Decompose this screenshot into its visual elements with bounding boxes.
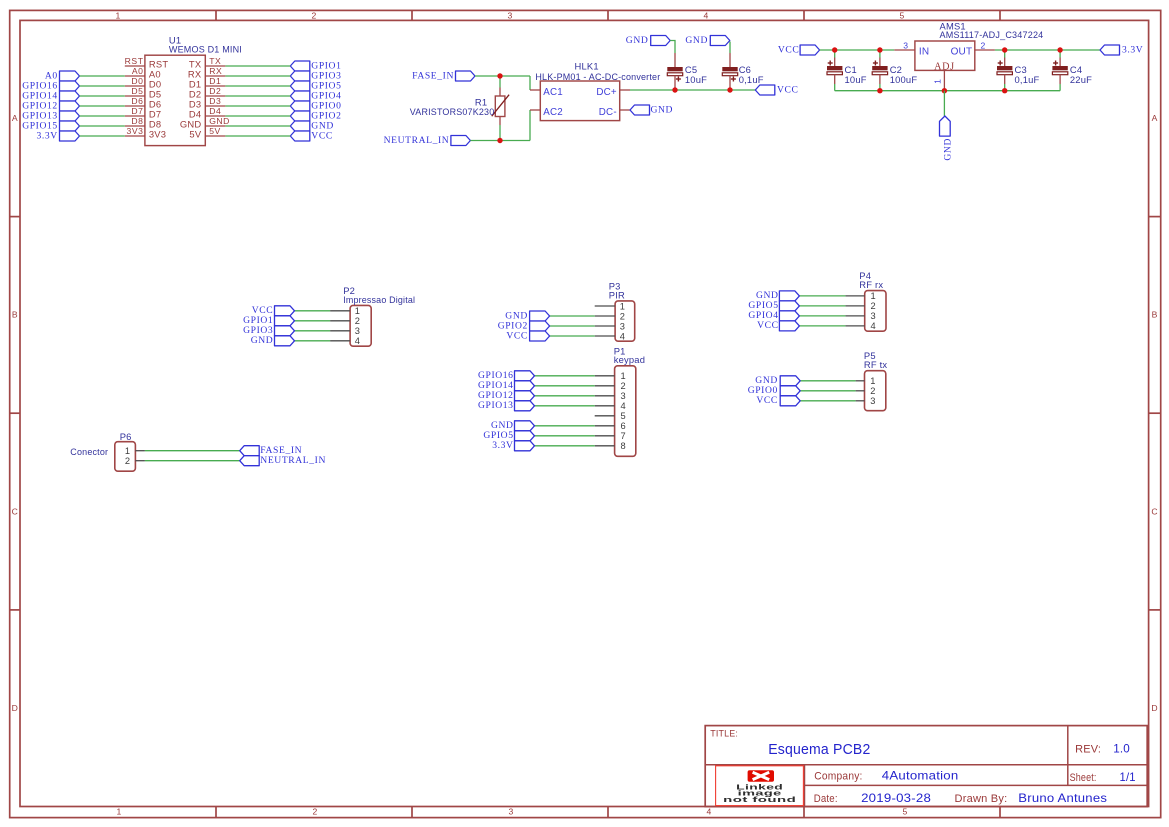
wire U1 to GPIO2 (225, 115, 290, 117)
svg-text:D1: D1 (209, 76, 221, 86)
P1 pin 2 (595, 385, 615, 387)
capacitor C3 wire bottom (1004, 84, 1006, 91)
wire U1 to GND (225, 125, 290, 127)
P4 pin 2 (845, 305, 864, 307)
net flag column right of U1 (290, 61, 310, 71)
svg-text:10uF: 10uF (685, 74, 707, 85)
svg-text:1: 1 (116, 11, 121, 21)
U1 left pin D0 (125, 85, 145, 87)
U1 right pin D4 (205, 115, 225, 117)
title block vertical divider rev column (1067, 726, 1069, 786)
net flag NEUTRAL_IN at P6 (240, 456, 260, 466)
svg-text:2: 2 (125, 456, 130, 466)
svg-text:D2: D2 (209, 86, 221, 96)
svg-text:DC+: DC+ (596, 87, 617, 98)
capacitor C5 (667, 67, 682, 71)
svg-text:C: C (12, 506, 18, 516)
junction C5 / VCC rail (672, 87, 677, 92)
svg-text:B: B (1152, 310, 1158, 320)
svg-text:GND: GND (943, 138, 954, 161)
junction C6 / VCC rail (727, 87, 732, 92)
svg-text:NEUTRAL_IN: NEUTRAL_IN (384, 135, 450, 146)
svg-text:VCC: VCC (757, 320, 779, 331)
resistor R1 (VARISTORS07K230) body (495, 96, 505, 117)
svg-text:D5: D5 (131, 86, 143, 96)
resistor R1 top pin (499, 88, 501, 97)
wire U1 to GPIO4 (225, 95, 290, 97)
net flag VCC (AMS input) (800, 45, 820, 55)
wire GPIO5 to P4 pin 2 (799, 305, 845, 307)
svg-text:Impressao Digital: Impressao Digital (343, 294, 415, 305)
wire VCC to P4 pin 4 (799, 325, 845, 327)
AMS1 pin 1 (ADJ) stub (943, 70, 945, 90)
HLK1 pin DC+ stub (620, 89, 630, 91)
svg-text:1/1: 1/1 (1120, 771, 1136, 784)
svg-text:2: 2 (313, 807, 318, 817)
title block divider under title row (705, 764, 1147, 766)
frame row ticks left (10, 216, 20, 218)
junction C4 / 3.3V (1057, 47, 1062, 52)
svg-text:4: 4 (620, 331, 625, 341)
wire GPIO12 to U1 (80, 105, 125, 107)
capacitor C4 wire bottom (1059, 84, 1061, 91)
svg-text:DC-: DC- (599, 107, 617, 118)
svg-text:TITLE:: TITLE: (710, 729, 738, 740)
svg-text:B: B (12, 310, 18, 320)
U1 right pin GND (205, 125, 225, 127)
U1 left pin 3V3 (125, 135, 145, 137)
op-amp U1 (WEMOS D1 MINI) box (145, 55, 205, 145)
svg-text:IN: IN (919, 46, 929, 57)
P3 pin 2 (595, 315, 615, 317)
capacitor C5 bottom pin (674, 76, 676, 90)
svg-text:4: 4 (707, 807, 712, 817)
P2 pin 1 (330, 310, 350, 312)
svg-text:AC1: AC1 (543, 87, 563, 98)
net flag GND above C6 (710, 36, 730, 46)
svg-text:2: 2 (621, 381, 626, 391)
wire A0 to U1 (80, 75, 125, 77)
svg-text:D: D (1151, 703, 1157, 713)
wire VCC to P2 pin 1 (295, 310, 331, 312)
net flag column at P5 (780, 376, 800, 386)
wire GPIO3 to P2 pin 3 (295, 330, 331, 332)
svg-text:0,1uF: 0,1uF (1015, 74, 1040, 85)
svg-text:8: 8 (621, 441, 626, 451)
connector P2 box (350, 305, 371, 346)
wire GND to P4 pin 1 (799, 295, 845, 297)
wire VCC to P5 pin 3 (800, 400, 855, 402)
P4 pin 1 (845, 295, 864, 297)
U1 right pin 5V (205, 135, 225, 137)
wire 3.3V to U1 (80, 135, 125, 137)
wire GPIO2 to P3 pin 3 (550, 325, 595, 327)
net flag column left of U1 (60, 71, 80, 81)
capacitor C1 (827, 66, 842, 70)
frame row ticks right (1149, 216, 1161, 218)
wire GND to P1 pin 6 (535, 425, 595, 427)
svg-text:1: 1 (355, 306, 360, 316)
svg-text:P6: P6 (120, 431, 132, 442)
HLK1 pin DC- stub (620, 109, 630, 111)
wire GPIO1 to P2 pin 2 (295, 320, 331, 322)
capacitor C1 wire top (834, 50, 836, 58)
P6 pin 1 (135, 450, 145, 452)
svg-text:D4: D4 (209, 106, 221, 116)
wire P6 pin2 to NEUTRAL_IN (145, 460, 240, 462)
svg-text:2: 2 (620, 311, 625, 321)
svg-text:D8: D8 (131, 116, 143, 126)
svg-text:not found: not found (723, 797, 796, 804)
P2 pin 4 (330, 340, 350, 342)
U1 left pin A0 (125, 75, 145, 77)
svg-text:VCC: VCC (311, 130, 333, 141)
capacitor C1 top pin (834, 58, 836, 67)
capacitor C3 top pin (1004, 58, 1006, 67)
svg-text:D: D (12, 703, 18, 713)
capacitor C2 wire bottom (879, 84, 881, 91)
net flag column at P1 bottom (515, 421, 535, 431)
U1 right pin D1 (205, 85, 225, 87)
svg-text:2: 2 (870, 386, 875, 396)
svg-text:RF tx: RF tx (864, 359, 888, 370)
wire GPIO5 to P1 pin 7 (535, 435, 595, 437)
wire GPIO4 to P4 pin 3 (799, 315, 845, 317)
wire GPIO13 to P1 pin 4 (535, 405, 595, 407)
wire GND rail to GND flag (943, 91, 945, 116)
svg-text:0,1uF: 0,1uF (739, 74, 764, 85)
broken image icon (748, 770, 774, 782)
svg-text:2: 2 (981, 41, 986, 51)
svg-text:RF rx: RF rx (859, 279, 883, 290)
HLK1 box (HLK-PM01) (540, 81, 619, 121)
svg-text:Drawn By:: Drawn By: (955, 793, 1008, 805)
junction ADJ / GND rail (942, 88, 947, 93)
wire VCC to AMS1 IN (820, 49, 895, 51)
U1 right pin D3 (205, 105, 225, 107)
svg-text:Conector: Conector (70, 446, 108, 457)
svg-text:3V3: 3V3 (149, 129, 166, 140)
svg-text:5: 5 (621, 411, 626, 421)
svg-text:C: C (1151, 506, 1157, 516)
svg-text:5: 5 (900, 11, 905, 21)
svg-text:1: 1 (871, 291, 876, 301)
svg-text:GPIO13: GPIO13 (478, 400, 514, 411)
wire GPIO16 to P1 pin 1 (535, 375, 595, 377)
resistor R1 varistor wire top (499, 76, 501, 88)
wire 3.3V to P1 pin 8 (535, 445, 595, 447)
title block outer box (705, 726, 1147, 807)
HLK1 pin AC2 stub (530, 109, 540, 111)
svg-text:D0: D0 (131, 76, 143, 86)
P5 pin 1 (856, 380, 865, 382)
P1 pin 8 (595, 445, 615, 447)
capacitor C1 bottom pin (834, 75, 836, 84)
capacitor C6 (722, 67, 737, 71)
svg-text:TX: TX (209, 56, 221, 66)
svg-text:GND: GND (251, 335, 274, 346)
svg-text:3: 3 (509, 807, 514, 817)
svg-text:Esquema PCB2: Esquema PCB2 (768, 742, 870, 758)
svg-text:10uF: 10uF (845, 74, 867, 85)
P4 pin 4 (845, 325, 864, 327)
P1 pin 5 (595, 415, 615, 417)
wire U1 to GPIO3 (225, 75, 290, 77)
wire AMS1 OUT to 3.3V (995, 49, 1100, 51)
wire GND to P3 pin 2 (550, 315, 595, 317)
svg-text:A: A (1152, 113, 1158, 123)
wire GPIO13 to U1 (80, 115, 125, 117)
svg-text:HLK1: HLK1 (575, 61, 599, 72)
svg-text:Date:: Date: (814, 793, 838, 805)
svg-text:2: 2 (871, 301, 876, 311)
capacitor C4 wire top (1059, 50, 1061, 58)
wire U1 to GPIO5 (225, 85, 290, 87)
wire VCC to P3 pin 4 (550, 335, 595, 337)
svg-text:3: 3 (355, 326, 360, 336)
wire GPIO0 to P5 pin 2 (800, 390, 855, 392)
U1 left pin D6 (125, 105, 145, 107)
frame column ticks bottom (215, 807, 217, 818)
P1 pin 6 (595, 425, 615, 427)
U1 right pin RX (205, 75, 225, 77)
wire P6 pin1 to FASE_IN (145, 450, 240, 452)
junction NEUTRAL_IN / R1 (497, 138, 502, 143)
svg-text:3: 3 (871, 311, 876, 321)
svg-text:OUT: OUT (951, 46, 973, 57)
svg-text:1: 1 (932, 79, 942, 84)
op-amp AMS1 (AMS1117-ADJ) box (915, 41, 975, 70)
wire GND to P5 pin 1 (800, 380, 855, 382)
wire GPIO14 to P1 pin 2 (535, 385, 595, 387)
svg-text:6: 6 (621, 421, 626, 431)
connector P6 box (115, 442, 136, 472)
title block vertical divider image cell (804, 765, 806, 807)
junction C2 / GND rail (877, 88, 882, 93)
svg-text:WEMOS D1 MINI: WEMOS D1 MINI (169, 43, 242, 54)
svg-text:GND: GND (209, 116, 230, 126)
linked image placeholder box (716, 766, 804, 806)
P1 pin 7 (595, 435, 615, 437)
svg-text:1: 1 (125, 446, 130, 456)
junction C3 / 3.3V (1002, 47, 1007, 52)
svg-text:1.0: 1.0 (1113, 743, 1130, 756)
wire GND flag to C6 (729, 42, 731, 54)
resistor R1 diagonal stroke (492, 95, 509, 117)
svg-text:4: 4 (871, 321, 876, 331)
svg-text:1: 1 (117, 807, 122, 817)
junction C1 / VCC (832, 47, 837, 52)
svg-text:keypad: keypad (614, 354, 645, 365)
capacitor C2 wire top (879, 50, 881, 58)
junction C2 / VCC (877, 47, 882, 52)
svg-text:3V3: 3V3 (127, 126, 144, 136)
net flag GND above C5 (651, 36, 671, 46)
svg-text:VARISTORS07K230: VARISTORS07K230 (410, 106, 495, 117)
net flag 3.3V (1100, 45, 1120, 55)
svg-text:3: 3 (870, 396, 875, 406)
connector P1 box (615, 366, 636, 457)
net flag column at P2 (275, 306, 295, 316)
svg-text:VCC: VCC (777, 84, 799, 95)
svg-text:1: 1 (620, 301, 625, 311)
P5 pin 2 (856, 390, 865, 392)
junction FASE_IN / R1 (497, 73, 502, 78)
svg-text:AC2: AC2 (543, 107, 563, 118)
svg-text:3.3V: 3.3V (492, 440, 513, 451)
svg-text:5: 5 (903, 807, 908, 817)
P3 pin 4 (595, 335, 615, 337)
svg-text:RX: RX (209, 66, 222, 76)
svg-text:AMS1117-ADJ_C347224: AMS1117-ADJ_C347224 (940, 29, 1044, 40)
svg-text:A0: A0 (132, 66, 144, 76)
P3 pin 3 (595, 325, 615, 327)
svg-text:2: 2 (355, 316, 360, 326)
svg-text:GND: GND (626, 35, 649, 46)
frame column ticks top (215, 10, 217, 20)
connector P5 box (865, 371, 886, 411)
svg-text:4: 4 (355, 336, 360, 346)
P2 pin 2 (330, 320, 350, 322)
U1 left pin RST (125, 65, 145, 67)
net flag column at P3 (530, 311, 550, 321)
title block divider under company row (805, 784, 1148, 786)
U1 left pin D8 (125, 125, 145, 127)
capacitor C4 (1052, 66, 1067, 70)
svg-text:5V: 5V (189, 129, 201, 140)
wire U1 to VCC (225, 135, 290, 137)
svg-text:GND: GND (651, 104, 674, 115)
svg-text:4: 4 (621, 401, 626, 411)
svg-text:REV:: REV: (1075, 744, 1101, 756)
P1 pin 3 (595, 395, 615, 397)
svg-text:VCC: VCC (506, 330, 528, 341)
svg-text:2019-03-28: 2019-03-28 (861, 792, 931, 805)
wire NEUTRAL_IN horizontal (470, 140, 530, 142)
svg-text:1: 1 (621, 371, 626, 381)
svg-text:D7: D7 (131, 106, 143, 116)
P1 pin 1 (595, 375, 615, 377)
svg-text:1: 1 (870, 376, 875, 386)
capacitor C4 top pin (1059, 58, 1061, 67)
capacitor C3 wire top (1004, 50, 1006, 58)
net flag GND (below AMS1) (940, 116, 951, 136)
svg-text:22uF: 22uF (1070, 74, 1092, 85)
svg-text:RST: RST (125, 56, 144, 66)
wire GND flag to C5 (670, 41, 675, 54)
GND rail under AMS1 (835, 90, 1060, 92)
svg-text:PIR: PIR (609, 289, 625, 300)
svg-text:4Automation: 4Automation (882, 769, 959, 782)
svg-text:7: 7 (621, 431, 626, 441)
svg-text:D6: D6 (131, 96, 143, 106)
svg-text:100uF: 100uF (890, 74, 918, 85)
net flag GND (DC-) (630, 105, 650, 115)
P2 pin 3 (330, 330, 350, 332)
U1 right pin TX (205, 65, 225, 67)
capacitor C6 top pin (729, 53, 731, 67)
wire GPIO15 to U1 (80, 125, 125, 127)
capacitor C3 bottom pin (1004, 75, 1006, 84)
svg-text:3.3V: 3.3V (36, 130, 57, 141)
svg-text:5V: 5V (209, 126, 221, 136)
U1 left pin D7 (125, 115, 145, 117)
capacitor C2 (872, 66, 887, 70)
capacitor C3 (997, 66, 1012, 70)
P6 pin 2 (135, 460, 145, 462)
capacitor C1 wire bottom (834, 84, 836, 91)
svg-text:3: 3 (620, 321, 625, 331)
svg-text:3: 3 (621, 391, 626, 401)
resistor R1 wire bottom (499, 125, 501, 141)
wire FASE_IN down to AC1 (529, 76, 531, 90)
resistor R1 bottom pin (499, 117, 501, 126)
P3 pin 1 (595, 305, 615, 307)
P5 pin 3 (856, 400, 865, 402)
AMS1 pin 3 stub (894, 49, 915, 51)
svg-text:D3: D3 (209, 96, 221, 106)
net flag column at P1 top (515, 371, 535, 381)
net flag NEUTRAL_IN (451, 136, 471, 146)
svg-text:NEUTRAL_IN: NEUTRAL_IN (260, 455, 326, 466)
connector P3 box (615, 301, 635, 341)
net flag VCC (DC+ rail) (755, 85, 775, 95)
net flag FASE_IN (456, 71, 476, 81)
wire DC+ to VCC rail (630, 89, 755, 91)
svg-text:HLK-PM01 - AC-DC-converter: HLK-PM01 - AC-DC-converter (535, 71, 660, 82)
wire U1 to GPIO1 (225, 65, 290, 67)
U1 right pin D2 (205, 95, 225, 97)
junction C3 / GND rail (1002, 88, 1007, 93)
svg-text:3: 3 (903, 41, 908, 51)
net flag FASE_IN at P6 (240, 446, 260, 456)
wire GPIO14 to U1 (80, 95, 125, 97)
P1 pin 4 (595, 405, 615, 407)
svg-text:VCC: VCC (778, 44, 800, 55)
svg-text:3.3V: 3.3V (1122, 44, 1143, 55)
svg-text:A: A (12, 113, 18, 123)
wire GPIO12 to P1 pin 3 (535, 395, 595, 397)
net flag column at P4 (779, 291, 799, 301)
svg-text:4: 4 (704, 11, 709, 21)
svg-text:Company:: Company: (814, 770, 862, 782)
svg-text:2: 2 (312, 11, 317, 21)
capacitor C2 top pin (879, 58, 881, 67)
capacitor C5 top pin (674, 53, 676, 67)
HLK1 pin AC1 stub (530, 89, 540, 91)
svg-text:FASE_IN: FASE_IN (412, 70, 454, 81)
wire GND to P2 pin 4 (295, 340, 331, 342)
svg-text:VCC: VCC (756, 395, 778, 406)
svg-text:Bruno Antunes: Bruno Antunes (1018, 792, 1107, 805)
svg-text:3: 3 (508, 11, 513, 21)
wire NEUTRAL_IN up to AC2 (529, 110, 531, 141)
svg-text:GND: GND (685, 35, 708, 46)
capacitor C2 bottom pin (879, 75, 881, 84)
svg-text:Sheet:: Sheet: (1070, 772, 1097, 784)
P4 pin 3 (845, 315, 864, 317)
wire FASE_IN horizontal (475, 75, 530, 77)
wire U1 to GPIO0 (225, 105, 290, 107)
wire GPIO16 to U1 (80, 85, 125, 87)
AMS1 pin 2 stub (975, 49, 995, 51)
capacitor C4 bottom pin (1059, 75, 1061, 84)
capacitor C6 bottom pin (729, 76, 731, 90)
connector P4 box (865, 291, 886, 332)
U1 left pin D5 (125, 95, 145, 97)
